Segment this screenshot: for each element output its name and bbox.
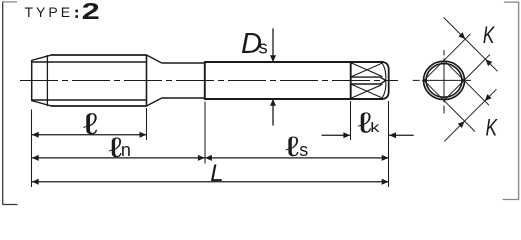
svg-text:k: k — [370, 120, 380, 135]
dimension ln (to neck) and ls (shank length) — [32, 130, 389, 163]
extension line at thread front — [31, 110, 33, 188]
svg-text:TYPE: TYPE — [25, 4, 74, 20]
extension line at neck/shank step — [204, 102, 206, 164]
axis centerline of tap (dash-dot) — [20, 80, 398, 82]
svg-text:L: L — [210, 160, 223, 187]
svg-text:s: s — [259, 38, 268, 58]
extension line at square start — [350, 101, 352, 140]
end view: square corner circle — [426, 64, 462, 98]
svg-text:s: s — [299, 140, 308, 160]
dimension lk (square length), arrows outside — [322, 107, 414, 139]
end view centerline vertical — [443, 50, 445, 114]
square drive end with cross (flat) marks — [351, 62, 386, 100]
drawing frame border (right) — [503, 2, 520, 200]
svg-text:K: K — [486, 115, 498, 141]
svg-text:n: n — [121, 140, 131, 160]
dimension Ds (shank diameter) — [241, 28, 276, 125]
title TYPE : 2 — [25, 0, 100, 24]
shank — [205, 61, 389, 100]
svg-text:ℓ: ℓ — [285, 130, 299, 162]
svg-text:ℓ: ℓ — [83, 108, 98, 141]
dimension K (upper, across flats) — [444, 18, 498, 72]
drawing frame border (left) — [2, 1, 17, 204]
extension line at thread end — [146, 108, 148, 140]
end view: square flats (chords, extended as extension lines) — [424, 34, 490, 132]
dimension K (lower, across flats) — [444, 89, 498, 141]
dimension L (overall length) — [32, 160, 389, 187]
end view centerline horizontal — [413, 79, 471, 81]
svg-text:2: 2 — [82, 0, 100, 24]
svg-text:K: K — [483, 22, 495, 48]
extension line at shank end — [388, 101, 390, 187]
end view: shank outer circle — [424, 61, 465, 99]
dimension l (thread length) — [32, 108, 147, 141]
threaded portion (cutting part) outline — [31, 55, 146, 107]
neck (transition) — [147, 55, 205, 106]
